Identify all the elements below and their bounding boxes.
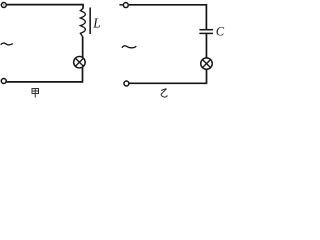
- terminal A top: [1, 3, 6, 8]
- terminal A bottom: [1, 79, 6, 84]
- lamp A (circle with X): [74, 56, 86, 67]
- capacitor C top plate: [199, 29, 213, 31]
- wire: circuit A top rail (terminal to inductor): [6, 5, 83, 9]
- wire: stub left of terminal B top: [119, 4, 122, 6]
- svg-text:C: C: [216, 24, 225, 38]
- terminal B bottom: [124, 81, 129, 86]
- wire: circuit B top rail (terminal to capacitor): [129, 5, 207, 29]
- inductor L (coil): [80, 8, 85, 36]
- capacitor C bottom plate: [199, 32, 213, 34]
- wire: lamp A to circuit A bottom rail: [6, 67, 82, 82]
- AC source symbol (tilde) circuit B: [122, 46, 136, 48]
- svg-text:L: L: [92, 16, 100, 31]
- inductor L core bar: [89, 8, 91, 35]
- label jia (circuit A caption): [32, 89, 39, 98]
- label yi (circuit B caption): [161, 89, 167, 97]
- AC source symbol (tilde) circuit A: [1, 43, 13, 45]
- wire: inductor to lamp A: [82, 37, 84, 58]
- terminal B top: [123, 3, 128, 8]
- lamp B (circle with X): [201, 58, 213, 70]
- wire: lamp B to circuit B bottom rail: [130, 69, 207, 83]
- wire: capacitor to lamp B: [205, 34, 207, 58]
